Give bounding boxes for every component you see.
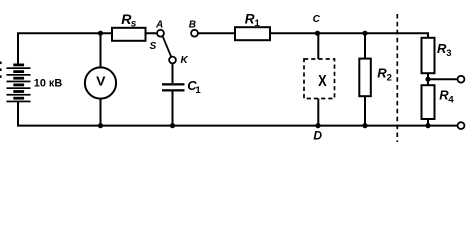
output terminal upper xyxy=(458,76,465,83)
resistor R2 xyxy=(359,59,371,97)
svg-text:C: C xyxy=(313,14,321,25)
unknown element X (dashed box) xyxy=(304,59,335,99)
svg-text:4: 4 xyxy=(448,94,454,105)
wire bottom rail xyxy=(18,101,458,126)
wire R2 branch top xyxy=(364,33,366,58)
wire R2 branch bottom xyxy=(364,96,366,125)
node junction divider midpoint xyxy=(425,77,430,82)
wire C to X box xyxy=(317,33,319,59)
node junction voltmeter bottom xyxy=(98,123,103,128)
svg-text:s: s xyxy=(131,19,137,30)
svg-text:10 кВ: 10 кВ xyxy=(34,77,63,89)
wire K to capacitor xyxy=(172,63,174,83)
capacitor C1 xyxy=(162,83,185,91)
resistor R4 xyxy=(422,85,435,119)
node junction R2 top xyxy=(362,31,367,36)
svg-text:B: B xyxy=(189,20,196,31)
resistor R1 xyxy=(235,27,270,40)
node junction capacitor bottom xyxy=(170,123,175,128)
resistor R3 xyxy=(422,38,435,73)
node junction voltmeter top xyxy=(98,31,103,36)
svg-text:R: R xyxy=(245,11,255,26)
svg-text:D: D xyxy=(313,129,322,143)
svg-text:S: S xyxy=(150,41,157,52)
terminal B xyxy=(191,30,198,37)
svg-text:1: 1 xyxy=(255,18,261,29)
svg-text:A: A xyxy=(155,20,163,31)
voltmeter PV xyxy=(85,67,116,98)
node junction R2 bottom xyxy=(362,123,367,128)
node C xyxy=(315,31,320,36)
wire top rail right (B to R1 to corner at R3) xyxy=(198,33,428,38)
dashed separator line xyxy=(396,14,398,142)
wire midpoint to output terminal xyxy=(428,78,458,80)
svg-text:X: X xyxy=(318,73,327,91)
output terminal lower xyxy=(458,122,465,129)
svg-text:1: 1 xyxy=(195,85,201,96)
scan artifact specks at left edge xyxy=(0,62,2,78)
wire R3 to R4 xyxy=(427,73,429,85)
switch S arm xyxy=(163,36,172,57)
wire X box to bottom rail xyxy=(317,99,319,126)
node D xyxy=(315,123,320,128)
switch S contact K xyxy=(169,57,176,64)
wire R4 to bottom rail xyxy=(427,119,429,126)
switch S contact A xyxy=(157,30,164,37)
svg-text:2: 2 xyxy=(387,72,392,83)
wire voltmeter branch bottom xyxy=(100,99,102,126)
svg-text:3: 3 xyxy=(446,48,451,59)
wire capacitor to bottom rail xyxy=(172,92,174,126)
svg-text:V: V xyxy=(96,74,105,88)
resistor Rs xyxy=(112,28,146,41)
node junction bottom rail right xyxy=(425,123,430,128)
battery GB (10 kV source) xyxy=(7,64,31,103)
wire voltmeter branch top xyxy=(100,33,102,67)
wire top rail left (corner to switch A) xyxy=(18,33,157,63)
svg-text:K: K xyxy=(181,55,189,66)
